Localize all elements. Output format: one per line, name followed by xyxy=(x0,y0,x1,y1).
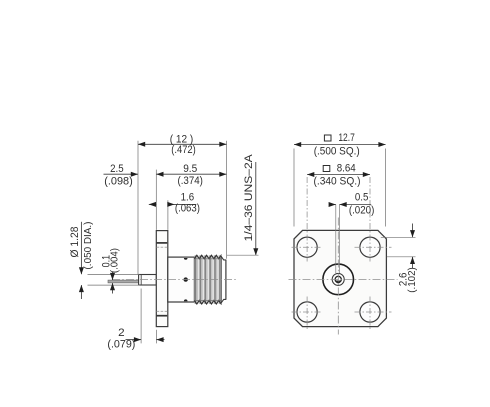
ext line bead left face xyxy=(137,141,139,274)
hole centerline top-left vertical xyxy=(306,177,308,262)
ext line square right xyxy=(385,149,387,227)
thread root line top xyxy=(194,258,221,260)
square symbol 8.64 xyxy=(323,166,330,172)
dimension 1.6 arrows xyxy=(149,203,157,205)
ext line square left xyxy=(293,149,295,227)
mounting hole top-left xyxy=(297,237,317,257)
hole centerline top-right horizontal xyxy=(355,246,392,248)
hole centerline top-right vertical xyxy=(369,177,371,262)
thread callout leader xyxy=(255,162,257,255)
dimension 2 ext line bead xyxy=(140,289,142,344)
body dimple center xyxy=(184,277,188,281)
hole centerline bottom-right vertical xyxy=(369,297,371,332)
ext line flange left face xyxy=(155,170,157,230)
threaded section 1/4-36 xyxy=(194,255,221,303)
bead step line xyxy=(140,275,142,285)
hole dia ext line bottom xyxy=(387,256,416,258)
flange hole hidden line lower xyxy=(157,315,168,317)
pin dia ext line bottom xyxy=(88,284,140,286)
dimension 0.5 arrows xyxy=(329,204,336,206)
socket contact dark bottom xyxy=(335,281,341,284)
svg-text:Ø 1.28: Ø 1.28 xyxy=(69,226,81,257)
svg-text:1.6: 1.6 xyxy=(181,191,195,203)
svg-text:(.050 DIA.): (.050 DIA.) xyxy=(83,222,94,270)
svg-text:(.098): (.098) xyxy=(104,175,133,187)
flange (side) xyxy=(156,231,168,327)
ext line flange right face xyxy=(167,200,169,230)
svg-text:8.64: 8.64 xyxy=(337,163,356,175)
svg-text:0.5: 0.5 xyxy=(355,192,369,204)
hole dia ext line top xyxy=(381,236,416,238)
svg-text:2: 2 xyxy=(118,327,125,339)
svg-text:(.374): (.374) xyxy=(177,175,203,187)
thread crest zigzag top xyxy=(194,255,221,259)
outer conductor circle xyxy=(323,264,354,295)
connector end bottom edge xyxy=(221,299,226,302)
dielectric circle xyxy=(332,273,344,285)
dimension 2 ext line flange xyxy=(155,330,157,344)
svg-text:(.020): (.020) xyxy=(349,205,375,217)
hole dia dim line lower xyxy=(412,257,414,269)
center pin xyxy=(108,280,139,283)
svg-text:(.004): (.004) xyxy=(110,248,121,273)
thread crest zigzag bottom xyxy=(194,300,221,304)
socket ext line right xyxy=(339,205,341,274)
front view horizontal centerline xyxy=(289,278,398,280)
hole centerline bottom-left horizontal xyxy=(292,311,323,313)
dimension 12.7 line xyxy=(294,144,386,146)
square symbol 12.7 xyxy=(324,135,331,141)
hole dia dim line upper xyxy=(412,224,414,238)
dimension 2.5 line xyxy=(104,173,139,175)
dimension 2 line xyxy=(126,339,142,341)
mounting hole bottom-left xyxy=(297,302,317,322)
pin tab dim arrows xyxy=(112,272,114,281)
hole centerline bottom-left vertical xyxy=(306,297,308,332)
socket contact xyxy=(335,276,341,282)
thread end boundary xyxy=(220,256,222,304)
dimension (12) line xyxy=(138,143,227,145)
svg-text:2.5: 2.5 xyxy=(110,163,124,175)
dimension 8.64 line xyxy=(307,174,370,176)
dimension 9.5 line xyxy=(156,173,226,175)
front view vertical centerline xyxy=(337,218,339,335)
body dimple top xyxy=(184,258,188,260)
svg-text:12.7: 12.7 xyxy=(338,132,355,144)
svg-text:(.079): (.079) xyxy=(107,339,135,351)
thread root line bottom xyxy=(194,299,221,301)
svg-text:(.063): (.063) xyxy=(175,203,200,215)
svg-text:(.102): (.102) xyxy=(407,267,418,293)
pin dia dim line upper xyxy=(80,222,82,274)
insulator bead xyxy=(139,275,157,286)
mounting hole bottom-right xyxy=(360,302,380,322)
connector body xyxy=(168,257,195,302)
side view centerline xyxy=(112,279,238,281)
pin dia ext line top xyxy=(88,274,140,276)
flange hole hidden line upper xyxy=(157,242,168,244)
body dimple bottom xyxy=(184,299,188,301)
svg-text:(.472): (.472) xyxy=(171,144,196,156)
svg-text:(.340 SQ.): (.340 SQ.) xyxy=(314,175,361,187)
connector end face xyxy=(225,260,227,300)
hole centerline top-left horizontal xyxy=(292,246,323,248)
flange hole hidden line lower faint xyxy=(157,310,168,312)
connector end top edge xyxy=(221,256,226,260)
socket ext line left xyxy=(335,205,337,274)
svg-text:(.500 SQ.): (.500 SQ.) xyxy=(314,146,360,158)
flange plate (front) xyxy=(294,230,386,326)
hole centerline bottom-right horizontal xyxy=(355,311,392,313)
thread crest ext line xyxy=(227,254,259,256)
svg-text:9.5: 9.5 xyxy=(183,163,197,175)
mounting hole top-right xyxy=(360,237,380,257)
svg-text:1/4–36 UNS–2A: 1/4–36 UNS–2A xyxy=(243,154,255,242)
ext line connector end xyxy=(226,141,228,259)
pin dia dim line lower xyxy=(80,285,82,299)
flange hole hidden line upper faint xyxy=(157,246,168,248)
